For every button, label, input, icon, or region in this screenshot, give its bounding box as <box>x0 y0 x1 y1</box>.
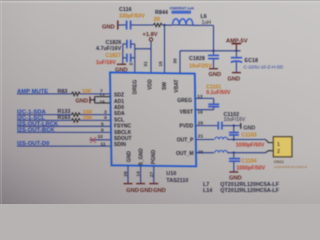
svg-text:QT2012RL120HC5A-LF: QT2012RL120HC5A-LF <box>220 188 279 194</box>
svg-text:SW: SW <box>162 82 168 90</box>
svg-text:SDA: SDA <box>114 111 125 117</box>
svg-text:C1104: C1104 <box>242 158 257 164</box>
svg-text:2: 2 <box>129 62 135 65</box>
svg-text:10: 10 <box>98 134 104 140</box>
svg-text:11: 11 <box>101 141 106 147</box>
svg-text:SBCLK: SBCLK <box>114 130 132 136</box>
svg-text:FSYNC: FSYNC <box>114 124 131 130</box>
svg-text:GND: GND <box>126 151 132 163</box>
svg-text:15: 15 <box>158 61 164 67</box>
svg-text:1: 1 <box>277 142 280 148</box>
svg-text:19: 19 <box>99 100 105 106</box>
svg-text:OUT_P: OUT_P <box>177 138 194 144</box>
svg-text:GND: GND <box>102 25 115 31</box>
svg-text:1000pF/50V: 1000pF/50V <box>236 142 265 148</box>
svg-text:4.7uF/16V: 4.7uF/16V <box>96 46 122 52</box>
svg-text:C-220U-10-Z-H-SD: C-220U-10-Z-H-SD <box>244 64 284 69</box>
svg-text:GND: GND <box>126 188 139 194</box>
svg-text:1uH: 1uH <box>202 20 212 26</box>
svg-text:GND: GND <box>243 125 255 131</box>
svg-text:5: 5 <box>101 121 104 127</box>
svg-text:QT2012RL120HC5A-LF: QT2012RL120HC5A-LF <box>220 182 279 188</box>
svg-text:27: 27 <box>149 172 155 178</box>
svg-text:L6: L6 <box>201 14 207 20</box>
svg-text:TAS2110: TAS2110 <box>166 178 188 184</box>
svg-text:PVDD: PVDD <box>179 124 193 130</box>
svg-text:SCL: SCL <box>114 117 124 123</box>
svg-text:13: 13 <box>197 94 203 100</box>
svg-text:CN11: CN11 <box>274 159 285 164</box>
svg-text:GREG: GREG <box>177 98 192 104</box>
svg-text:+1.8V: +1.8V <box>143 32 158 38</box>
svg-text:1uF/16V: 1uF/16V <box>96 60 116 66</box>
svg-text:GND: GND <box>209 72 222 78</box>
svg-text:VDD: VDD <box>148 79 154 90</box>
svg-text:GND: GND <box>76 98 89 104</box>
svg-text:0.1uF/50V: 0.1uF/50V <box>206 90 231 96</box>
svg-text:DREG: DREG <box>133 80 139 95</box>
svg-text:VSM0503T-1uH: VSM0503T-1uH <box>170 7 195 11</box>
svg-text:C1826: C1826 <box>106 40 122 46</box>
svg-text:U10: U10 <box>166 171 176 177</box>
svg-text:GND: GND <box>228 77 241 83</box>
svg-text:PGND: PGND <box>151 149 157 164</box>
svg-text:28: 28 <box>123 171 129 177</box>
svg-text:GND: GND <box>153 188 166 194</box>
svg-text:B_GND: B_GND <box>138 148 144 166</box>
svg-text:R844: R844 <box>155 10 168 16</box>
svg-text:EC18: EC18 <box>245 58 259 64</box>
svg-text:GND: GND <box>229 176 242 182</box>
svg-text:31: 31 <box>143 61 149 67</box>
svg-text:30: 30 <box>172 58 178 64</box>
svg-text:OUT_M: OUT_M <box>176 151 194 157</box>
svg-text:12: 12 <box>99 93 105 99</box>
svg-text:R83: R83 <box>58 89 68 95</box>
svg-text:L7: L7 <box>203 182 209 188</box>
svg-text:21: 21 <box>198 134 204 140</box>
svg-text:2R: 2R <box>154 17 161 23</box>
svg-text:14: 14 <box>136 171 142 177</box>
svg-text:4: 4 <box>104 115 107 121</box>
svg-text:SDIN: SDIN <box>114 142 126 148</box>
svg-text:R163: R163 <box>58 115 71 121</box>
svg-text:6: 6 <box>101 128 104 134</box>
svg-text:VBST: VBST <box>180 110 193 116</box>
svg-text:C1827: C1827 <box>106 53 121 59</box>
svg-text:C1828: C1828 <box>189 56 205 62</box>
svg-text:GND: GND <box>140 188 153 194</box>
svg-text:10uF/25V: 10uF/25V <box>189 64 212 70</box>
svg-text:AD1: AD1 <box>114 99 124 105</box>
svg-text:VBAT: VBAT <box>174 79 180 92</box>
svg-text:1000pF/50V: 1000pF/50V <box>237 166 266 172</box>
svg-text:SDZ: SDZ <box>114 93 124 99</box>
svg-text:AD0: AD0 <box>114 105 124 111</box>
svg-text:330pF/50V: 330pF/50V <box>119 14 145 20</box>
svg-text:SDOUT: SDOUT <box>114 136 132 142</box>
svg-text:3: 3 <box>104 109 107 115</box>
svg-text:A1001AWR-02-F2MA-R: A1001AWR-02-F2MA-R <box>274 165 308 169</box>
svg-text:16: 16 <box>198 110 204 116</box>
svg-text:10uF/16V: 10uF/16V <box>224 117 246 123</box>
svg-text:L14: L14 <box>203 188 212 194</box>
svg-text:2: 2 <box>277 149 280 155</box>
svg-text:C1103: C1103 <box>242 132 257 138</box>
svg-text:C116: C116 <box>119 7 132 13</box>
